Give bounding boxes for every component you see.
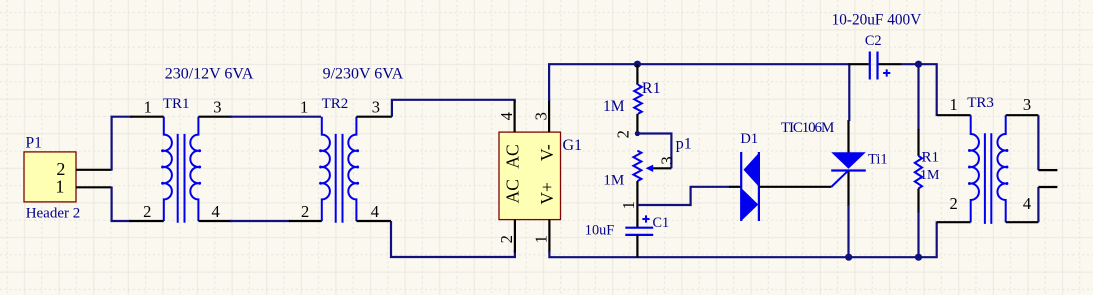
resistor R1 (left) bottom lead [636, 114, 638, 134]
svg-text:2: 2 [143, 202, 151, 221]
wire Ti1 cathode down to bottom rail [847, 205, 849, 257]
svg-text:1: 1 [144, 98, 152, 117]
svg-text:C1: C1 [653, 215, 670, 231]
svg-text:230/12V 6VA: 230/12V 6VA [165, 66, 254, 83]
svg-text:C2: C2 [865, 33, 882, 49]
lower output stub [1038, 186, 1057, 188]
potentiometer p1 wiper arrow [646, 165, 654, 172]
G1 pin 2 [514, 220, 516, 253]
svg-text:AC: AC [502, 179, 522, 203]
svg-text:2: 2 [614, 130, 633, 138]
capacitor C1 plus sign [642, 215, 649, 222]
svg-text:1: 1 [950, 95, 958, 114]
svg-text:1M: 1M [920, 168, 940, 183]
svg-text:3: 3 [372, 97, 380, 116]
wire TR3 pin3 to upper output stub [1037, 115, 1039, 170]
svg-text:V+: V+ [537, 182, 557, 205]
svg-text:D1: D1 [740, 131, 758, 147]
svg-text:R1: R1 [922, 149, 940, 165]
svg-text:V-: V- [537, 144, 557, 161]
svg-text:3: 3 [531, 112, 550, 120]
capacitor C2 right plate [876, 52, 878, 80]
wire C2 to TR3 top [902, 64, 937, 116]
upper output stub [1038, 169, 1057, 171]
svg-text:TR3: TR3 [967, 95, 994, 111]
svg-text:1M: 1M [603, 172, 624, 188]
G1 pin 3 [548, 100, 550, 132]
resistor R1 (right) top lead [917, 129, 919, 156]
transformer TR3 primary winding [971, 115, 979, 222]
wire TR2 pin4 to G1 pin2 [391, 221, 515, 257]
node: junction Ti1 / bottom rail [845, 254, 852, 261]
diac D1 lower triangle [742, 188, 759, 220]
wire top rail corner down to Ti1 anode [848, 64, 850, 121]
thyristor Ti1 triangle [831, 152, 866, 169]
wire G1 pin3 up to top rail [549, 64, 849, 101]
wire TR2 pin3 to G1 pin4 [392, 100, 515, 117]
potentiometer p1 wiper lead [651, 167, 672, 169]
svg-text:1: 1 [619, 201, 638, 209]
TR1 pin 4 lead [198, 220, 232, 222]
wire P1 pin2 to TR1 pin1 [112, 117, 132, 171]
transformer TR3 core [984, 133, 986, 224]
svg-text:Header 2: Header 2 [26, 205, 81, 221]
TR1 pin 2 lead [130, 220, 164, 222]
svg-text:TIC106M: TIC106M [781, 120, 834, 136]
potentiometer p1 body [633, 151, 641, 182]
G1 pin 1 [548, 220, 550, 253]
svg-text:10-20uF 400V: 10-20uF 400V [832, 12, 922, 29]
resistor R1 (left) top lead [636, 64, 638, 85]
transformer TR2 secondary winding [348, 117, 356, 221]
TR2 pin 3 lead [356, 116, 392, 118]
potentiometer p1 bottom lead [636, 181, 638, 227]
diac D1 left lead [729, 186, 741, 188]
capacitor C1 bottom plate [625, 234, 653, 236]
TR2 pin 4 lead [356, 220, 391, 222]
svg-text:G1: G1 [563, 137, 583, 154]
diac D1 left bar [740, 152, 742, 221]
G1 pin 4 [513, 100, 515, 132]
svg-text:4: 4 [497, 112, 516, 120]
transformer TR2 core [335, 134, 337, 223]
resistor R1 (right) top wire [917, 64, 919, 130]
node: junction R1 / potentiometer [635, 131, 640, 136]
TR3 pin 3 lead [1006, 114, 1039, 116]
svg-text:TR1: TR1 [163, 96, 190, 112]
connector P1 (Header 2) body [24, 152, 76, 202]
svg-text:2: 2 [497, 235, 516, 243]
svg-text:4: 4 [1023, 194, 1031, 213]
svg-text:1: 1 [55, 177, 64, 197]
bridge rectifier G1 body [499, 132, 561, 220]
svg-text:10uF: 10uF [585, 223, 614, 239]
TR3 pin 1 lead [937, 114, 971, 116]
svg-text:AC: AC [502, 144, 522, 168]
svg-text:4: 4 [371, 202, 379, 221]
wire D1 to thyristor gate [759, 186, 831, 188]
diac D1 upper triangle [744, 153, 759, 187]
node: junction C2 / R1 right [915, 61, 922, 68]
capacitor C2 left lead [848, 63, 868, 65]
resistor R1 (right) bottom wire [917, 212, 919, 257]
svg-text:p1: p1 [676, 136, 692, 153]
diac D1 right bar [758, 152, 760, 221]
resistor R1 (right) bottom lead [917, 189, 919, 214]
wire pot bottom to diac D1 [637, 187, 730, 205]
P1 pin 1 lead [76, 186, 112, 188]
capacitor C2 plus sign [883, 69, 890, 76]
wire pot wiper loop [637, 134, 671, 169]
svg-text:1M: 1M [603, 98, 625, 115]
node: junction R1 right / bottom rail [915, 254, 922, 261]
svg-text:3: 3 [1023, 95, 1031, 114]
thyristor Ti1 anode lead [847, 120, 849, 153]
transformer TR3 secondary winding [997, 115, 1005, 222]
thyristor Ti1 gate [831, 171, 848, 187]
transformer TR1 secondary winding [190, 117, 198, 221]
svg-text:2: 2 [301, 202, 309, 221]
svg-text:TR2: TR2 [322, 96, 349, 112]
transformer TR2 primary winding [322, 117, 330, 221]
transformer TR1 core [177, 134, 179, 223]
wire TR3 pin4 to lower output stub [1037, 187, 1039, 222]
TR3 pin 2 lead [937, 221, 971, 223]
wire TR1 pin3 to TR2 pin1 [230, 116, 321, 118]
capacitor C2 right lead [879, 63, 902, 65]
svg-text:3: 3 [213, 97, 221, 116]
svg-text:9/230V 6VA: 9/230V 6VA [323, 66, 404, 83]
thyristor Ti1 cathode lead [847, 171, 849, 207]
TR3 pin 4 lead [1006, 221, 1039, 223]
svg-text:Ti1: Ti1 [868, 152, 888, 168]
svg-text:4: 4 [212, 202, 220, 221]
capacitor C2 left plate [869, 52, 871, 80]
bottom rail from G1 pin1 [549, 221, 936, 257]
wire P1 pin1 to TR1 pin2 [112, 187, 131, 222]
TR1 pin 3 lead [198, 116, 232, 118]
svg-text:3: 3 [658, 156, 677, 164]
wire TR1 pin4 to TR2 pin2 [230, 220, 290, 222]
TR2 pin 2 lead [289, 220, 322, 222]
transformer TR1 primary winding [164, 117, 172, 221]
resistor R1 (right) body [915, 156, 922, 189]
P1 pin 2 lead [76, 169, 112, 171]
capacitor C1 bottom lead [636, 235, 638, 257]
svg-text:P1: P1 [26, 135, 42, 152]
svg-text:R1: R1 [642, 80, 661, 97]
capacitor C1 top plate [625, 227, 653, 229]
resistor R1 (left) body [634, 85, 642, 114]
node: junction top rail / R1 [634, 61, 641, 68]
TR1 pin 1 lead [130, 116, 163, 118]
svg-text:1: 1 [531, 235, 550, 243]
svg-text:1: 1 [300, 97, 308, 116]
thyristor Ti1 cathode bar [831, 169, 866, 171]
svg-text:2: 2 [950, 194, 958, 213]
